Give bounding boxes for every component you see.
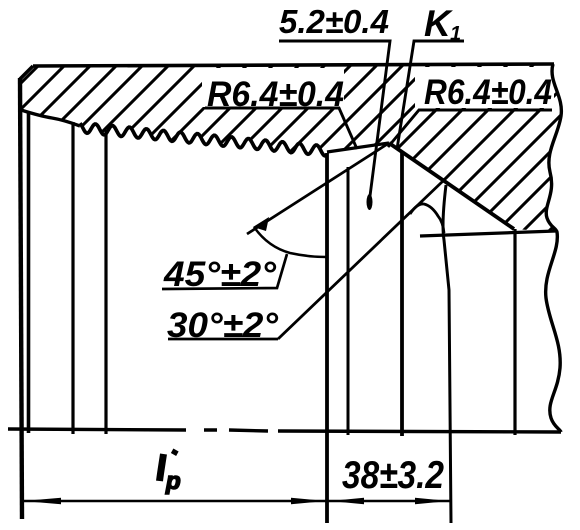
arrow lp right: [291, 498, 326, 504]
top-left bevel: [20, 66, 33, 79]
svg-text:45°±2°: 45°±2°: [163, 255, 277, 294]
30 label underline: [168, 338, 278, 341]
angle arc: [254, 227, 327, 257]
vertical V4: [104, 130, 107, 434]
svg-text:K: K: [424, 3, 453, 44]
arrow 38 left: [330, 498, 364, 504]
arrow lp left: [23, 498, 61, 504]
vertical V3: [71, 122, 74, 434]
white label boxes clearing hatch: [202, 68, 344, 107]
label K1 underline + leader: [397, 41, 464, 149]
right break line: [546, 64, 562, 432]
svg-text:R6.4±0.4: R6.4±0.4: [424, 73, 552, 112]
thread wavy line: [80, 123, 327, 156]
chamfer edge: [389, 143, 514, 229]
vertical x=402: [400, 152, 404, 436]
left R6.4 underline + leader: [205, 108, 357, 149]
crest line: [327, 143, 389, 152]
vertical at thread end / extension x=327: [325, 153, 329, 523]
right R6.4 underline + leader: [388, 110, 552, 147]
label 5.2 underline + leader: [279, 41, 390, 196]
svg-text:R6.4±0.4: R6.4±0.4: [207, 75, 344, 114]
vertical from chamfer x=447 / extension: [443, 185, 451, 523]
arrow 38 right: [415, 498, 449, 504]
arc arrowhead: [253, 217, 269, 231]
hatched section body: [20, 64, 561, 232]
45 label underline + bend: [162, 254, 287, 289]
svg-text:5.2±0.4: 5.2±0.4: [279, 3, 389, 40]
vertical x=348: [347, 167, 350, 435]
svg-text:38±3.2: 38±3.2: [342, 454, 444, 497]
vertical V2: [27, 113, 31, 433]
svg-text:1: 1: [450, 23, 461, 45]
top edge: [33, 64, 554, 66]
leader dot: [367, 194, 373, 210]
svg-text:30°±2°: 30°±2°: [167, 306, 279, 345]
inner boundary left: [21, 110, 80, 126]
text lp: [160, 454, 164, 481]
bottom edge: [8, 429, 561, 432]
svg-text:p: p: [165, 468, 181, 495]
30-degree line: [278, 181, 443, 339]
fillet curve: [410, 204, 444, 233]
bore horizontal edge: [420, 231, 556, 236]
vertical x=515: [513, 229, 516, 435]
45-degree construction line: [247, 143, 389, 234]
dimension line: [23, 500, 451, 503]
left face vertical: [20, 78, 22, 519]
